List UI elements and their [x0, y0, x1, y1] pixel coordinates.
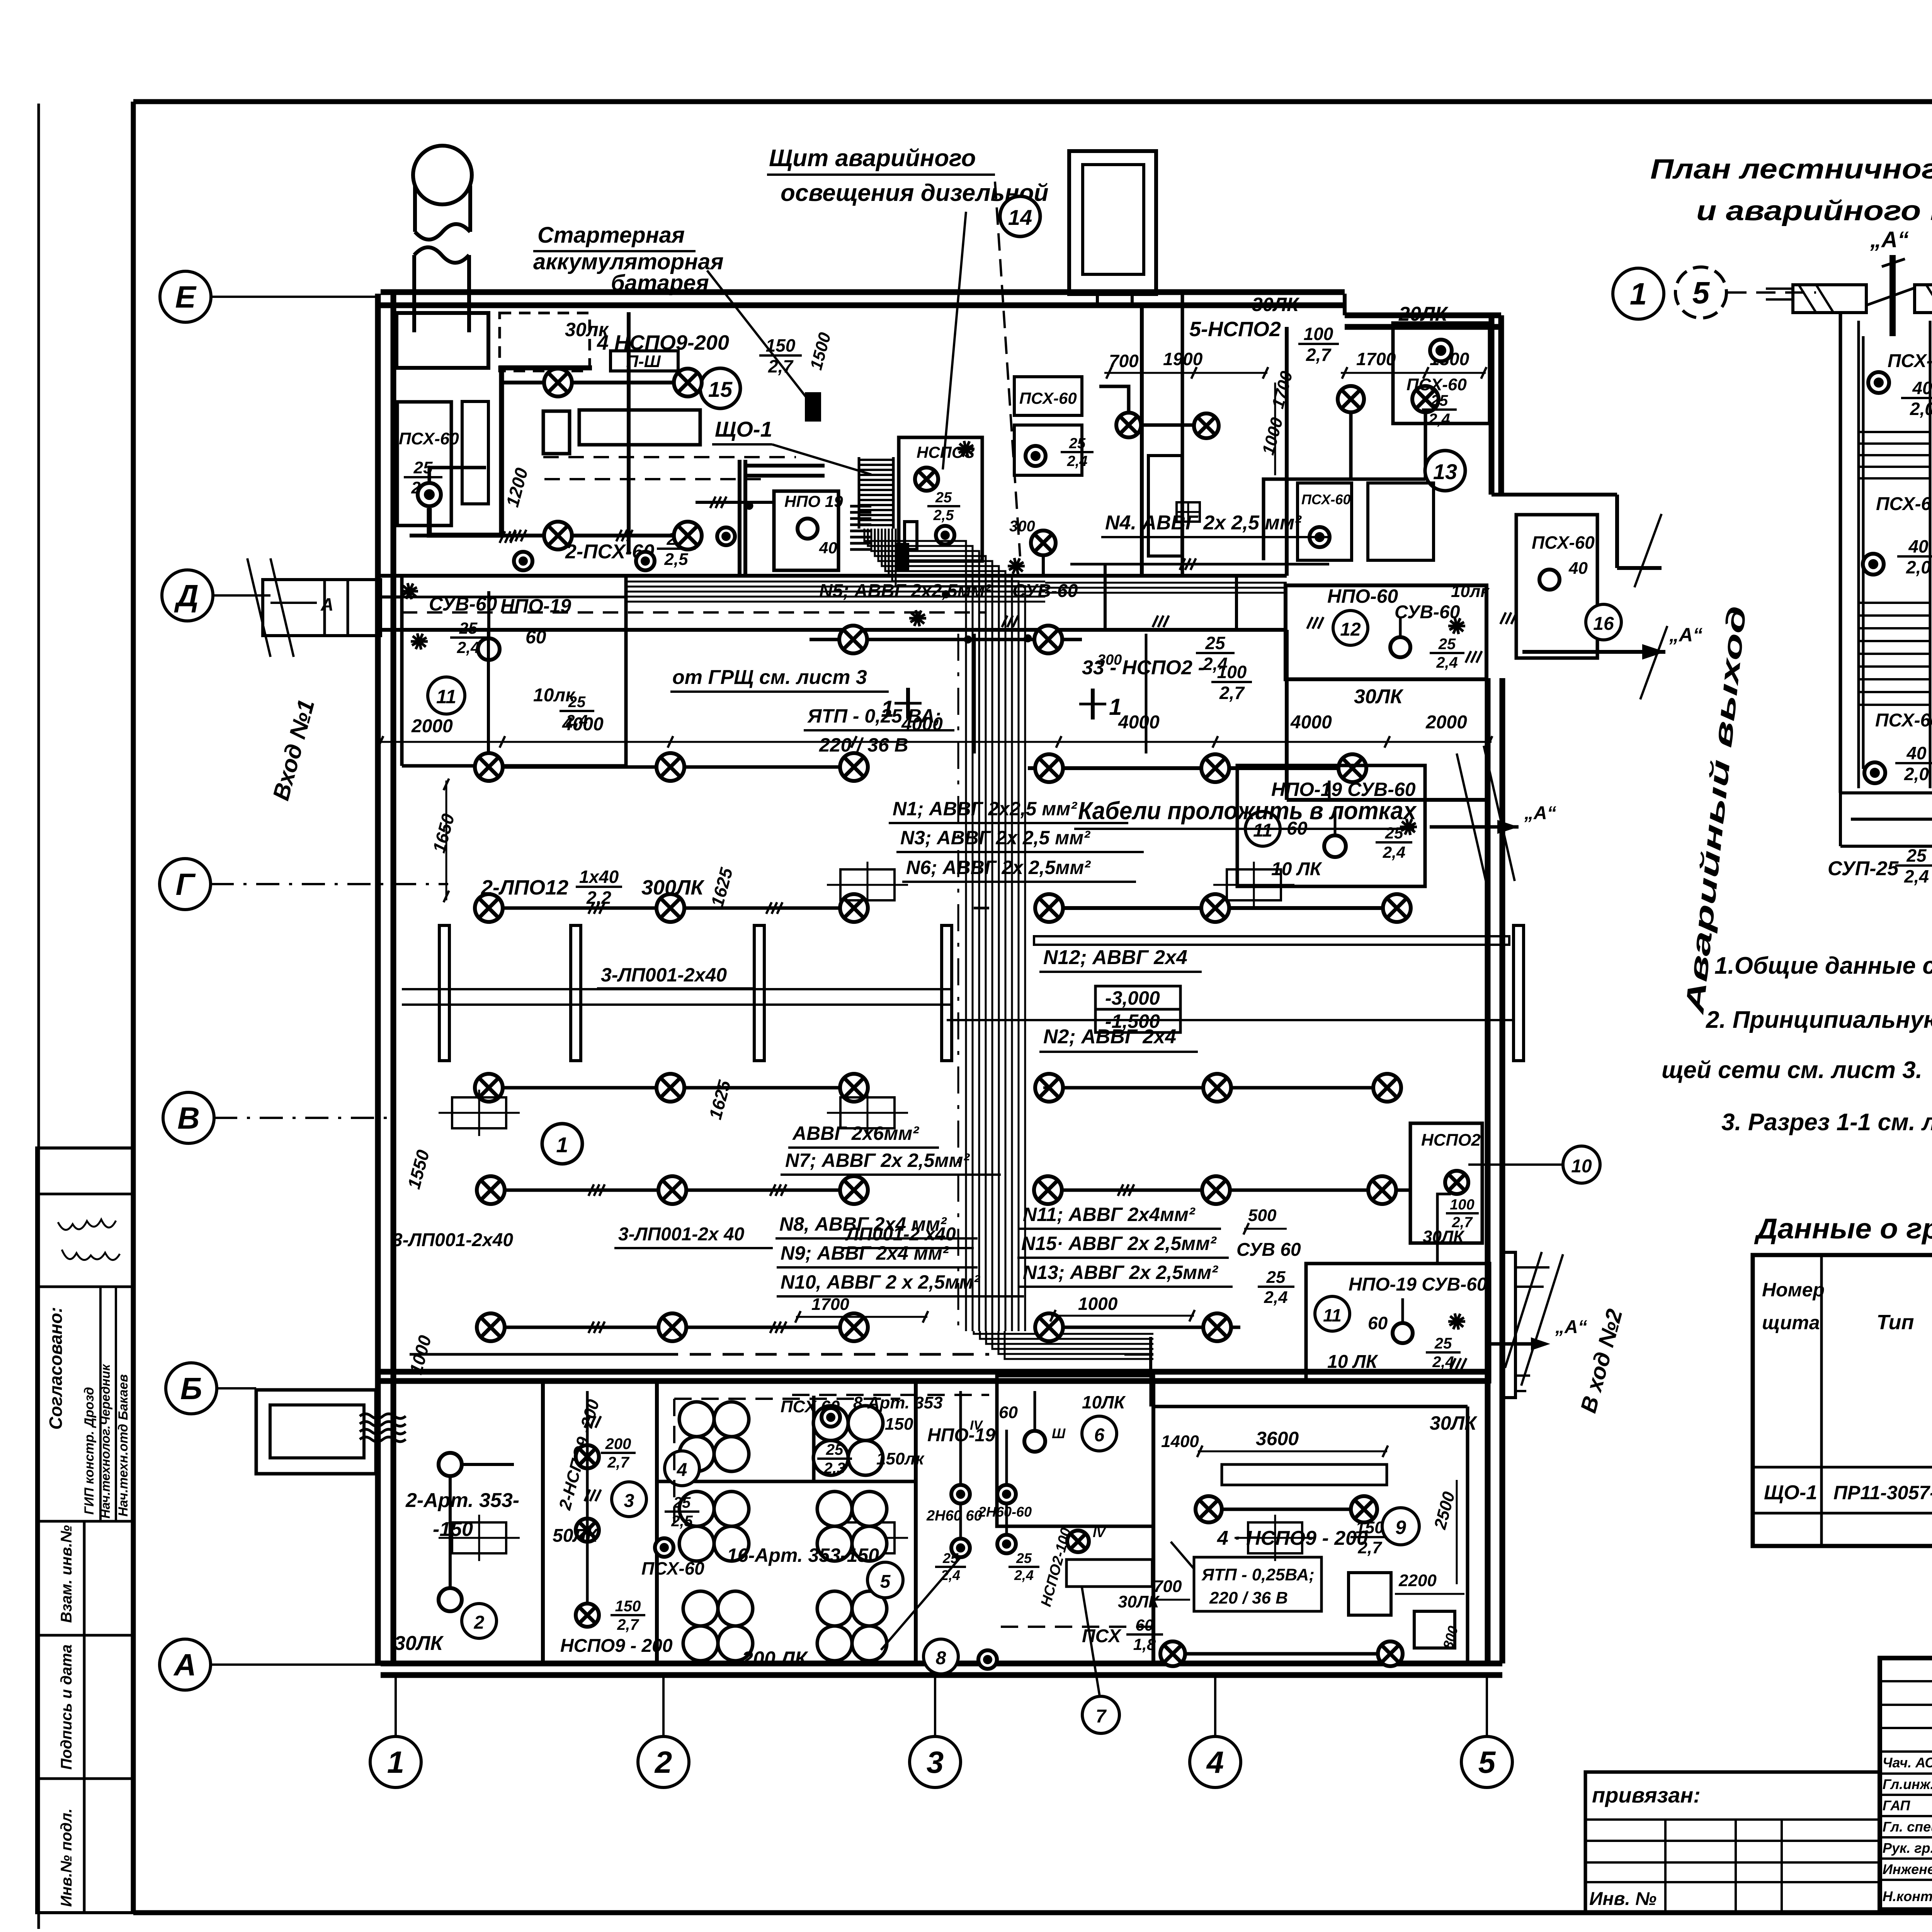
svg-text:ПСХ-60: ПСХ-60 [399, 429, 459, 448]
svg-text:2,7: 2,7 [1306, 345, 1332, 365]
exit passage A upper [1522, 650, 1665, 654]
stamp signatures [58, 1219, 116, 1230]
plan wall vestibule south-east [1287, 798, 1488, 802]
svg-text:25: 25 [459, 619, 478, 637]
plan partition x3330 top [1285, 327, 1289, 576]
svg-text:2,0: 2,0 [1904, 764, 1929, 784]
svg-text:ПСХ-60: ПСХ-60 [1532, 532, 1595, 553]
bottom partition room8 [1151, 1381, 1155, 1663]
equipment block room 15 upper [396, 313, 488, 368]
hall lamp row 1 [473, 765, 869, 769]
corridor lamp row upper [810, 638, 1082, 641]
svg-text:Инженер: Инженер [1883, 1861, 1932, 1877]
room 4 content [679, 1402, 714, 1437]
svg-text:150: 150 [615, 1598, 641, 1615]
svg-text:8: 8 [936, 1648, 946, 1668]
svg-text:N15· АВВГ 2х 2,5мм²: N15· АВВГ 2х 2,5мм² [1021, 1233, 1217, 1254]
svg-text:N8, АВВГ 2х4 мм²: N8, АВВГ 2х4 мм² [779, 1213, 947, 1235]
left stamp column box [37, 1148, 133, 1913]
stamp rotated text Взам инв № [58, 1525, 75, 1623]
room 6 labels [1082, 1416, 1117, 1451]
svg-text:100: 100 [1450, 1197, 1474, 1213]
svg-text:Инв.№ подл.: Инв.№ подл. [58, 1808, 75, 1907]
hub drop arrows [909, 617, 926, 620]
sheet margin line left [37, 104, 40, 1929]
section mark 1 left [906, 688, 910, 719]
hall lamp row 2 [473, 906, 869, 910]
svg-text:25: 25 [1266, 1268, 1286, 1287]
svg-text:ЩО-1: ЩО-1 [1764, 1481, 1817, 1504]
svg-text:1700: 1700 [811, 1295, 849, 1314]
svg-text:12: 12 [1340, 619, 1361, 640]
svg-text:НПО-19 СУВ-60: НПО-19 СУВ-60 [1349, 1274, 1487, 1295]
room 8 wires [959, 1391, 962, 1485]
corridor cable runs right [1045, 582, 1287, 584]
column marks hall [840, 869, 895, 900]
svg-text:2,4: 2,4 [1264, 1288, 1287, 1307]
room 6 box [997, 1376, 1153, 1526]
svg-text:Подпись и дата: Подпись и дата [58, 1645, 75, 1770]
svg-text:ЩО-1: ЩО-1 [715, 417, 772, 441]
staircase grid circle 1 [1613, 268, 1664, 319]
label Вход №1 [268, 697, 320, 803]
svg-text:30лк: 30лк [565, 319, 609, 340]
svg-text:Ш: Ш [1052, 1425, 1066, 1441]
svg-text:„А“: „А“ [1870, 227, 1909, 252]
svg-text:3-ЛП001-2х40: 3-ЛП001-2х40 [392, 1230, 513, 1250]
svg-text:Е: Е [175, 280, 197, 314]
wire right rooms drop [1328, 781, 1331, 800]
svg-text:30ЛК: 30ЛК [1252, 294, 1300, 315]
svg-text:Г: Г [175, 867, 196, 901]
svg-text:4: 4 [677, 1460, 687, 1480]
room 11b box upper-right [1237, 765, 1425, 886]
svg-text:2-Арт. 353-: 2-Арт. 353- [405, 1489, 519, 1512]
room НСПОЗ box [899, 437, 982, 561]
plan partition x2955 [1140, 305, 1144, 576]
svg-text:10: 10 [1571, 1156, 1592, 1177]
plan outer wall top [381, 289, 1345, 295]
room 11 tambour box [400, 576, 404, 766]
room 14 tall rect [1148, 456, 1182, 556]
svg-text:2: 2 [474, 1612, 485, 1633]
title block привязан box [1585, 1772, 1880, 1913]
svg-text:ГАП: ГАП [1883, 1798, 1910, 1813]
vertical dim 1625 lower [705, 1078, 735, 1122]
svg-text:4000: 4000 [562, 714, 604, 735]
svg-text:2,4: 2,4 [1428, 411, 1450, 428]
room 13 lower boxes [1298, 483, 1352, 560]
svg-text:4000: 4000 [1290, 712, 1332, 733]
svg-text:2,7: 2,7 [617, 1616, 639, 1633]
room 12 box [1286, 585, 1486, 679]
svg-text:150лк: 150лк [876, 1449, 925, 1468]
dim 1000 1700 rotated [1259, 415, 1287, 457]
svg-text:3-ЛП001-2х 40: 3-ЛП001-2х 40 [618, 1224, 745, 1245]
room 10 НСПО2 box [1410, 1123, 1482, 1243]
svg-text:6: 6 [1094, 1425, 1105, 1446]
svg-text:СУВ-60: СУВ-60 [1012, 581, 1078, 601]
label П-Ш box [611, 351, 678, 371]
entrance 2 structure [1502, 1252, 1515, 1398]
svg-text:ПСХ-60: ПСХ-60 [1406, 375, 1467, 394]
svg-text:150: 150 [1355, 1518, 1384, 1537]
staircase slab step detail [1866, 288, 1915, 305]
room 11b box lower-right [1306, 1264, 1490, 1382]
wires from bundle to rows [974, 907, 989, 910]
stamp rotated text Соглассовано [46, 1307, 66, 1430]
hub extra density [850, 505, 871, 508]
svg-text:200 ЛК: 200 ЛК [742, 1648, 808, 1670]
wire hall top to rooms [1104, 576, 1107, 630]
svg-text:N7; АВВГ 2х 2,5мм²: N7; АВВГ 2х 2,5мм² [785, 1150, 970, 1171]
coil symbol annex [360, 1414, 406, 1418]
svg-text:ПСХ-60: ПСХ-60 [1888, 351, 1932, 371]
room 13 lamps [1338, 386, 1364, 412]
stamp rotated text Подпись и дата [58, 1645, 75, 1770]
svg-text:4000: 4000 [1118, 712, 1160, 733]
svg-text:Данные о групповых: Данные о групповых щитках [1754, 1213, 1932, 1245]
leader to ЩО-1 panel [943, 212, 966, 469]
svg-text:10лк: 10лк [1451, 582, 1490, 601]
svg-text:25: 25 [1205, 633, 1226, 653]
svg-text:ПСХ-60: ПСХ-60 [641, 1558, 704, 1578]
svg-text:2,4: 2,4 [1383, 843, 1405, 861]
svg-text:5: 5 [1692, 276, 1710, 310]
main cable bundle hub ladder [859, 459, 893, 461]
svg-text:ПСХ: ПСХ [1082, 1626, 1122, 1646]
hub junction dots [745, 502, 753, 510]
svg-text:200: 200 [605, 1435, 631, 1452]
svg-text:220 / 36 В: 220 / 36 В [1209, 1588, 1288, 1607]
staircase bottom pit [1840, 791, 1932, 794]
svg-text:60: 60 [1136, 1616, 1154, 1634]
grid axis column 1 [370, 1736, 421, 1787]
svg-text:N13; АВВГ 2х 2,5мм²: N13; АВВГ 2х 2,5мм² [1023, 1262, 1218, 1283]
svg-text:„А“: „А“ [1524, 803, 1556, 823]
svg-text:2,4: 2,4 [1436, 654, 1458, 671]
svg-text:Н.контр.: Н.контр. [1883, 1888, 1932, 1904]
svg-text:2000: 2000 [411, 716, 453, 736]
svg-text:Щит аварийного: Щит аварийного [769, 145, 976, 172]
plan outer wall top right step [1343, 294, 1347, 315]
svg-text:1: 1 [556, 1133, 568, 1157]
corridor cable runs [626, 581, 1045, 583]
svg-text:2,0: 2,0 [1910, 399, 1932, 419]
svg-text:25: 25 [1906, 845, 1927, 866]
svg-text:40: 40 [1908, 536, 1929, 556]
room 9 bottom right rect [1414, 1611, 1455, 1648]
svg-text:30ЛК: 30ЛК [1423, 1227, 1465, 1246]
label Аварийный выход [1680, 604, 1752, 1016]
svg-text:2,4: 2,4 [1202, 654, 1228, 674]
room 3 content [555, 1397, 603, 1512]
label Вход №2 [1576, 1306, 1628, 1415]
svg-text:3600: 3600 [1256, 1428, 1299, 1449]
svg-text:700: 700 [1153, 1577, 1182, 1596]
svg-text:5-НСПО2: 5-НСПО2 [1189, 318, 1281, 341]
staircase grid circle 5 [1675, 267, 1726, 318]
window sym hall top [1177, 502, 1200, 522]
svg-text:700: 700 [1109, 351, 1139, 371]
exit passage A lower [1490, 1342, 1546, 1346]
fixture box ПСХ-60 top right [1393, 323, 1490, 423]
svg-text:1х40: 1х40 [579, 867, 619, 887]
svg-text:30ЛК: 30ЛК [394, 1632, 444, 1655]
level mark box [1095, 986, 1180, 1009]
svg-text:Согласовано:: Согласовано: [46, 1307, 66, 1430]
svg-text:25: 25 [1430, 392, 1448, 409]
stamp rotated text Нач.технолог Чередник [98, 1364, 112, 1519]
svg-text:25: 25 [568, 694, 586, 711]
grid axis column 4 [1190, 1736, 1241, 1787]
room 9 partition [1153, 1405, 1468, 1408]
svg-text:8 Арт. 353: 8 Арт. 353 [853, 1393, 943, 1412]
svg-text:-150: -150 [433, 1518, 473, 1541]
svg-text:33 - НСПО2 -: 33 - НСПО2 - [1082, 656, 1205, 679]
svg-text:2,7: 2,7 [607, 1454, 629, 1471]
wire room15 loop [429, 468, 486, 483]
svg-text:2,4: 2,4 [1067, 453, 1088, 469]
vertical dim 1000 left [405, 1333, 435, 1377]
svg-text:25: 25 [826, 1441, 844, 1458]
svg-text:Чач. АСМ 1: Чач. АСМ 1 [1883, 1755, 1932, 1770]
svg-text:10ЛК: 10ЛК [1082, 1392, 1126, 1412]
svg-text:60: 60 [999, 1403, 1018, 1422]
svg-text:2200: 2200 [1398, 1571, 1437, 1590]
svg-text:300: 300 [1009, 518, 1035, 535]
cable tray long rect [1034, 936, 1509, 945]
svg-text:14: 14 [1008, 205, 1032, 230]
vertical dim 1650 [429, 811, 458, 855]
svg-text:ПСХ-60: ПСХ-60 [1876, 494, 1932, 514]
room circle 13 [1425, 451, 1465, 491]
svg-text:План лестничного спуска вхо: План лестничного спуска входов [1650, 154, 1932, 185]
svg-text:4000: 4000 [901, 714, 943, 735]
staircase lamp ПСХ-60 upper [1868, 372, 1889, 393]
svg-text:N3; АВВГ 2х 2,5 мм²: N3; АВВГ 2х 2,5 мм² [900, 827, 1090, 849]
svg-text:30ЛК: 30ЛК [1430, 1412, 1478, 1434]
exit passage A mid [1430, 825, 1519, 829]
dims 1700 1300 room 13 [1341, 372, 1486, 374]
svg-text:Тип: Тип [1877, 1311, 1914, 1334]
batten bus lines [402, 988, 951, 990]
svg-text:ГИП констр. Дрозд: ГИП констр. Дрозд [82, 1387, 97, 1515]
svg-text:11: 11 [436, 686, 456, 707]
svg-text:2000: 2000 [1425, 712, 1467, 733]
svg-text:2,5: 2,5 [664, 550, 688, 569]
room 9 transformer box [1194, 1557, 1321, 1611]
panel data table grid [1753, 1255, 1932, 1546]
svg-text:от ГРЩ см. лист 3: от ГРЩ см. лист 3 [672, 666, 867, 689]
room 15 feeder thick runs [429, 368, 592, 535]
grid axis row Б [166, 1363, 217, 1414]
svg-text:СУП-25: СУП-25 [1828, 857, 1899, 880]
svg-text:2-ЛПО12: 2-ЛПО12 [481, 876, 568, 899]
svg-text:ПСХ-60: ПСХ-60 [1301, 492, 1350, 507]
vertical dim 1625 upper [707, 865, 736, 909]
hall room circle 1 [542, 1124, 582, 1164]
svg-text:2,5: 2,5 [933, 507, 954, 524]
svg-text:Кабели проложить в лотках: Кабели проложить в лотках [1078, 797, 1417, 825]
svg-text:1700: 1700 [1356, 349, 1396, 369]
stamp rotated text ГИП констр Дрозд [82, 1387, 97, 1515]
grid axis column 3 [910, 1736, 961, 1787]
section mark 1 right [1091, 689, 1095, 719]
svg-text:40: 40 [1568, 559, 1588, 578]
svg-text:ПСХ-60: ПСХ-60 [1875, 710, 1932, 731]
svg-text:ЯТП - 0,25ВА;: ЯТП - 0,25ВА; [1201, 1565, 1315, 1584]
dim 1200 rotated [502, 466, 532, 509]
feeder wire from panel left [381, 595, 402, 599]
svg-text:1,8: 1,8 [1133, 1635, 1156, 1653]
svg-text:Стартерная: Стартерная [537, 223, 685, 248]
svg-text:40: 40 [1912, 378, 1932, 398]
svg-text:щита: щита [1762, 1312, 1820, 1333]
svg-text:25: 25 [1069, 435, 1086, 452]
svg-text:25: 25 [1434, 1335, 1452, 1352]
svg-text:3. Разрез 1-1 см. лист 5.: 3. Разрез 1-1 см. лист 5. [1721, 1109, 1932, 1136]
staircase shaft walls [1839, 313, 1842, 793]
svg-text:300ЛК: 300ЛК [641, 876, 705, 899]
svg-text:16: 16 [1593, 614, 1614, 634]
panel ЩО-1 [807, 394, 819, 420]
hall lamp row 4 [475, 1189, 869, 1192]
svg-text:А: А [320, 594, 333, 614]
title block outer border [1880, 1658, 1932, 1910]
plan outer wall right lower [1485, 678, 1491, 1663]
svg-text:16-Арт. 353-150: 16-Арт. 353-150 [727, 1544, 879, 1566]
svg-text:2,7: 2,7 [1219, 683, 1245, 703]
room 10 leader circle [1468, 1163, 1563, 1166]
svg-text:N6; АВВГ 2х 2,5мм²: N6; АВВГ 2х 2,5мм² [906, 857, 1091, 878]
room 9 square [1349, 1573, 1391, 1615]
main cable bundle vertical [864, 529, 966, 1331]
svg-text:2. Принципиальную схему пита: 2. Принципиальную схему питаю- [1706, 1007, 1932, 1033]
svg-text:N1; АВВГ 2х2,5 мм²: N1; АВВГ 2х2,5 мм² [893, 798, 1077, 820]
svg-text:50ЛК: 50ЛК [553, 1526, 599, 1546]
wire bundle to room9 [1150, 1376, 1152, 1406]
svg-text:Б: Б [180, 1371, 202, 1406]
plan corridor wall south [381, 628, 1287, 632]
svg-text:15: 15 [708, 377, 733, 401]
staircase steps flight 2 [1859, 602, 1930, 604]
svg-text:30ЛК: 30ЛК [1354, 685, 1404, 708]
equipment block room 15 lower [543, 411, 570, 454]
svg-text:батарея: батарея [611, 270, 709, 296]
svg-text:IV: IV [1093, 1526, 1106, 1540]
room 9 bottom lamp line [1173, 1652, 1391, 1656]
leader battery [707, 270, 807, 398]
room 16 box [1516, 515, 1597, 658]
svg-text:2,2: 2,2 [586, 888, 611, 908]
svg-text:2,7: 2,7 [1357, 1538, 1383, 1557]
svg-text:N10, АВВГ 2 х 2,5мм²: N10, АВВГ 2 х 2,5мм² [781, 1271, 980, 1293]
plan partition diesel west [627, 312, 631, 554]
svg-text:2,4: 2,4 [1904, 866, 1929, 886]
svg-text:Гл.инж.: Гл.инж. [1883, 1776, 1932, 1792]
svg-text:„А“: „А“ [1555, 1317, 1587, 1337]
svg-text:100: 100 [1304, 324, 1333, 344]
lamp row room 15 upper [502, 381, 688, 384]
svg-text:1.Общие данные см. листы 1: 1.Общие данные см. листы 1, 2. [1714, 952, 1932, 979]
room НПО-19 box diesel [774, 491, 838, 570]
svg-text:N5; АВВГ 2х2,5мм²: N5; АВВГ 2х2,5мм² [819, 581, 992, 601]
plan outer wall right upper [1489, 315, 1495, 495]
svg-text:3: 3 [624, 1491, 634, 1511]
vertical dim 1550 [403, 1148, 433, 1191]
svg-text:1: 1 [1630, 277, 1647, 311]
svg-text:220 / 36 В: 220 / 36 В [819, 734, 908, 756]
grid axis column 5 [1461, 1736, 1512, 1787]
hall lamp row 3 [473, 1086, 869, 1090]
svg-text:Номер: Номер [1762, 1279, 1825, 1301]
bottom partition room3 [655, 1381, 659, 1663]
svg-text:Д: Д [174, 578, 199, 613]
svg-text:СУВ 60: СУВ 60 [1236, 1240, 1301, 1260]
svg-text:НСПО2: НСПО2 [1421, 1131, 1481, 1150]
svg-text:2,4: 2,4 [1014, 1567, 1034, 1583]
room 2 content [439, 1453, 462, 1476]
svg-text:В: В [177, 1101, 200, 1135]
fluorescent battens [439, 925, 449, 1061]
svg-text:2Н60 60: 2Н60 60 [926, 1508, 982, 1524]
svg-text:П-Ш: П-Ш [626, 352, 661, 371]
svg-text:А: А [173, 1648, 196, 1682]
entrance 1 structure [263, 580, 381, 636]
exit break lines mid [1457, 753, 1488, 889]
left annex at Б [256, 1390, 376, 1474]
grid axis column 2 [638, 1736, 689, 1787]
grid axis row Д [162, 570, 213, 621]
svg-text:N9; АВВГ 2х4 мм²: N9; АВВГ 2х4 мм² [781, 1242, 949, 1264]
svg-text:2,0: 2,0 [1906, 557, 1931, 577]
room 14 fixture boxes [1014, 377, 1082, 415]
lamp row room 15 lower [410, 534, 688, 537]
stamp rotated text Нач.техн.отд Бакаев [116, 1374, 131, 1517]
svg-text:НСПО9 - 200: НСПО9 - 200 [560, 1636, 673, 1656]
svg-text:1: 1 [881, 696, 894, 722]
svg-text:НПО-60: НПО-60 [1327, 585, 1398, 607]
cable bundle bottom elbow [974, 1331, 1153, 1334]
staircase top slab left [1793, 285, 1866, 313]
svg-text:привязан:: привязан: [1592, 1783, 1701, 1807]
grid axis row Е [160, 271, 211, 322]
axis dash line bundle [957, 634, 959, 1333]
hall lamp row 5 [475, 1326, 869, 1329]
svg-text:500: 500 [1248, 1206, 1277, 1225]
bottom partition room4-5 [914, 1381, 918, 1663]
plan top right corner walls [1492, 493, 1617, 497]
plan outer wall bottom [381, 1661, 1502, 1667]
tank cylinders top-left [413, 146, 472, 204]
wire room 10 to 11b [1437, 1194, 1451, 1264]
room 5 content [679, 1492, 714, 1526]
roof shaft top-centre [1069, 151, 1156, 294]
room leader circle 7 [1082, 1696, 1119, 1733]
svg-text:Нач.техн.отд Бакаев: Нач.техн.отд Бакаев [116, 1374, 131, 1517]
svg-text:1: 1 [387, 1745, 405, 1779]
room circle 14 top [1000, 196, 1040, 236]
grid axis row В [163, 1092, 214, 1143]
plan corridor wall north [381, 574, 1287, 578]
svg-text:2Н60-60: 2Н60-60 [978, 1504, 1032, 1520]
svg-text:7: 7 [1096, 1706, 1107, 1727]
room 15 dashed circuits [543, 456, 796, 458]
svg-text:1400: 1400 [1161, 1432, 1199, 1451]
svg-text:Гл. спец.Э: Гл. спец.Э [1883, 1819, 1932, 1835]
svg-text:1000: 1000 [1078, 1294, 1118, 1314]
